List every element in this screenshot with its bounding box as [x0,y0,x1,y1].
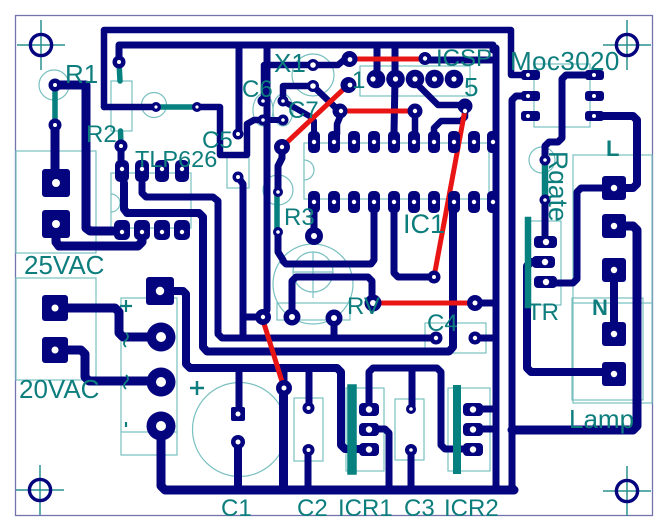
wire X1 top to reset pad [313,60,349,65]
pad C6 top [258,96,269,107]
pad conn 4 [147,412,176,441]
pad 25VAC-1 [42,169,70,197]
wire ICR2 gate arm [473,426,496,433]
pad 25VAC-2 [42,210,70,238]
wire red top pad to right vertical [428,57,492,64]
pad C2 bottom [303,444,315,456]
wire R2 bottom to TLP pin1 [118,148,125,168]
pad R1 bottom [49,119,62,132]
wire R1 top arm [55,85,122,231]
pad red start row2 left [333,104,348,119]
pad R2 top [113,56,126,69]
wire X1 bottom diagonal to pad [313,86,340,111]
fab outline ICR2 [448,388,490,471]
wire pi stub to C3 top [409,368,416,409]
pad R1 top [49,79,62,92]
pads IC1 top row [308,131,499,153]
pads TLP626 bottom row [114,220,190,240]
teal trace TR tab [525,220,532,305]
via red bottom [276,380,292,396]
pad C3 bottom [405,444,417,456]
pad conn 3 [147,368,176,397]
wire ICR1 top pi line [369,368,473,449]
pad RV1 [284,309,301,326]
teal trace resistor R2 body [119,62,121,146]
pad X1 top [307,59,319,71]
fab outline X1 crystal [292,54,334,96]
pad red diag start [341,77,357,93]
pad R3 top [273,187,283,197]
svg-text:IC1: IC1 [403,209,445,239]
teal trace ICR2 tab [453,389,461,470]
silk plus connector [120,300,132,312]
fab outline lamp terminal inner [572,298,643,400]
fab outline C7 [273,94,293,126]
fab outline IC1 [304,143,489,199]
svg-text:ICSP: ICSP [436,45,492,72]
fab outline 25VAC connector [16,151,96,253]
mounting hole bottom-left [16,465,64,515]
pad RV3 [365,295,382,312]
wire R3 bottom to IC1 pin via y264 [278,210,374,264]
pad conn plus [146,277,174,305]
fab outline TR [526,221,561,305]
svg-text:C5: C5 [202,127,233,154]
silk tilde pin3 [124,375,128,389]
pad X1 bottom [307,80,319,92]
via Rgate bottom [540,195,551,206]
pad R3 bottom [273,227,283,237]
pad C6 bottom [258,115,269,126]
pad L terminal 2 [602,214,626,238]
wire Rgate via to TR pad [542,200,549,242]
svg-text:C4: C4 [427,310,458,337]
pads ICR2 [463,403,483,456]
pad via jumper left [151,102,161,112]
wire B drop ICSP pin1 [374,45,381,79]
pad conn 2 [147,323,176,352]
wire lamp line [512,226,637,430]
pad R2 bottom [115,140,128,153]
red jumper long diagonal [434,110,465,277]
wire X1 top to C6 top [264,65,313,101]
pad C4 left [430,332,443,345]
fab outline ICR1 [346,388,384,471]
wire L terminal to TR [546,188,614,283]
fab outline RV potentiometer [273,244,353,324]
wire pad B to C6 C7 bottom [197,107,263,155]
red jumper row2 [340,109,415,114]
svg-text:Moc3020: Moc3020 [510,46,620,76]
wire red via to bus [279,388,288,490]
pad red row2 right [408,104,423,119]
wire R3 via to R3 top [278,147,282,192]
fab outline C3 [395,399,424,460]
fab outline via jumper [142,93,167,118]
fab outline C5 [227,155,249,188]
red jumper ICSP top [350,57,425,62]
via P A [255,309,271,325]
mounting hole top-right [603,20,651,70]
pad C1 plus square [231,407,245,421]
wire IC1 pin1 to big pad [311,211,318,236]
wire 20VAC pad2 to conn pin3 [55,350,150,381]
wire 20VAC pad1 to conn pin2 [55,308,150,337]
fab circle Rgate via [529,147,555,173]
wire TR middle to lamp pad [527,262,612,372]
wire H4 stub to C1 plus [236,368,243,414]
wire pad to IC1 pin2 [334,112,342,139]
pad L terminal 1 [602,176,626,200]
wire C2 bottom to bus [305,450,312,490]
svg-text:C2: C2 [297,495,328,522]
pads TR [532,236,557,288]
wire H4 stub to C2 top [306,368,313,408]
wire H2 branch to via A [243,314,263,321]
mounting hole bottom-right [603,466,651,516]
fab outline 20VAC connector [16,278,96,380]
svg-text:L: L [606,136,619,161]
wire Moc pin4 to L terminal [594,116,637,188]
svg-text:C1: C1 [221,495,252,522]
svg-text:C7: C7 [288,97,319,124]
pad C7 bottom [278,115,289,126]
teal trace via jumper [156,104,197,110]
wire RV pad1 to RV pad3 [292,277,372,317]
wire R1 bottom to 25VAC pad1 [51,125,60,183]
wire 25VAC pad2 to TLP pin [56,224,142,246]
pad reset top-left [342,51,358,67]
svg-text:25VAC: 25VAC [24,250,104,280]
pad lamp terminal [602,362,626,386]
fab outline TLP626 [111,173,191,228]
via R3 top [274,139,290,155]
pads IC1 bottom row [308,191,499,213]
mounting hole top-left [17,20,65,70]
fab line lamp zone [573,302,652,304]
svg-text:Rgate: Rgate [543,151,573,222]
fab outline resistor R1 [39,70,69,100]
teal trace resistor R3 body [274,194,280,231]
silk tilde pin2 [124,333,128,347]
pad C5 bottom [233,172,244,183]
svg-text:N: N [592,295,608,320]
silk minus pin4 [125,422,127,427]
wire Moc pin6 to Rgate via [545,75,594,160]
svg-text:ICR2: ICR2 [444,495,499,522]
wire ICR2 top arm [473,406,496,413]
wire ICSP pin3 dogleg to red via pad [415,82,462,105]
wire IC1 pin to via 434 277 [394,212,434,277]
wire C1 bottom to bus [234,442,242,490]
fab outline resistor R2 body [111,81,132,131]
svg-text:R2: R2 [86,121,117,148]
wire conn pin4 to ground bus [161,430,514,490]
svg-text:1: 1 [352,67,365,94]
pad red long diag top [458,99,473,114]
wire C6 bottom to C7 bottom [263,117,283,123]
wire B drop to C5 [236,45,243,134]
pads ICSP header [367,70,464,89]
wire N terminal pair link [610,270,618,334]
svg-text:C3: C3 [404,495,435,522]
pad red right top [419,52,432,65]
red jumper RV [373,301,475,306]
wire RV pad3 red jumper right arm [475,300,496,307]
fab outline C4 [425,323,486,353]
pads ICR1 [359,403,379,456]
wire C5 bottom to H2 to IC1 [238,177,243,336]
wire X1 bottom to C7 top [283,86,313,101]
pad C4 right [469,332,482,345]
teal trace resistor R1 body [52,85,58,125]
wire ICR1 gate to bus [369,429,389,490]
fab outline C6 [253,94,273,126]
wire TLP pin1 to H3 [124,183,453,352]
teal trace ICR1 tab [347,389,357,470]
wire B drop ICSP pin2 [394,45,395,133]
pad C7 top [278,96,289,107]
wire top bus A [104,30,524,107]
wire Moc pad2 long vertical [512,96,531,490]
pad RV2 wiper [326,310,343,327]
wire pad to IC1 pin8 [434,108,465,133]
pad 20VAC-2 [42,337,68,363]
fab outline lamp terminal outer [573,155,652,403]
pad 20VAC-1 [42,295,68,321]
pad C1 minus [231,435,245,449]
fab outline Moc3020 [534,64,590,127]
pad N terminal 1 [602,258,626,282]
pads Moc3020 left column [521,70,540,121]
fab outline R3 [263,175,293,205]
silk plus C1 [190,381,204,395]
wire B drop long via line [263,45,267,317]
svg-text:RV: RV [347,293,380,320]
wire plus pad arm to H4 [160,291,369,449]
pad N terminal 2 [602,322,626,346]
red jumper reset to R3 via [282,85,348,147]
pad IC1 pin1 big round [305,227,323,245]
svg-text:R3: R3 [284,204,315,231]
svg-text:X1: X1 [274,48,306,78]
pad C5 top [233,129,244,140]
pads TLP626 top row [115,160,189,182]
wire pad to IC1 pin6 [412,111,419,135]
teal trace Rgate resistor [542,160,549,200]
wire top bus A left to via jumper [104,104,156,111]
via Rgate top [540,155,551,166]
fab outline C2 [294,398,323,461]
svg-text:20VAC: 20VAC [19,374,99,404]
wire TLP pin2 to H1 to C4 [142,183,436,338]
svg-text:5: 5 [464,72,478,102]
pad RV red right [467,295,483,311]
svg-text:TR: TR [527,299,559,326]
wire right vertical from B to bus [493,48,500,487]
wire RV wiper stub to H1 [331,318,338,338]
wire top bus B [119,45,493,62]
fab outline ICSP header [360,66,470,96]
svg-text:R1: R1 [65,59,98,89]
svg-text:Lamp: Lamp [569,404,634,434]
wire H4 stub to red via [281,368,288,388]
pad via jumper right [192,102,202,112]
red jumper via to via [262,317,284,388]
via IC to triac [428,271,441,284]
pad C3 top [406,404,416,414]
wire C7 top to IC1 pin [283,101,314,133]
wire C4 right arm [475,335,496,342]
fab outline C1 electrolytic [193,383,287,477]
svg-text:C6: C6 [242,76,273,103]
pad C2 top [303,402,315,414]
pads Moc3020 right column [585,70,604,121]
fab outline 4-pin power connector [121,298,177,455]
wire C3 bottom to bus [408,450,415,490]
svg-text:ICR1: ICR1 [338,495,393,522]
